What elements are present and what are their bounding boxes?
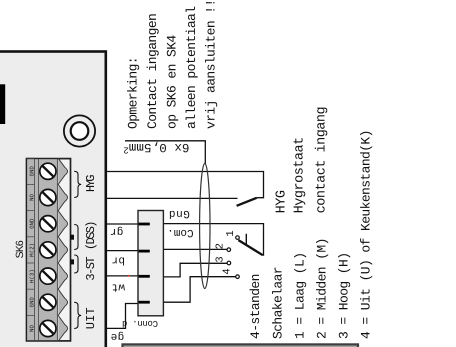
svg-text:GND: GND (29, 297, 36, 308)
svg-text:Hygrostaat: Hygrostaat (293, 137, 308, 213)
svg-text:3: 3 (215, 256, 227, 262)
svg-text:wt: wt (111, 281, 125, 293)
svg-text:GND: GND (29, 218, 36, 229)
svg-text:alleen potentiaal: alleen potentiaal (184, 6, 199, 129)
svg-text:3-ST: 3-ST (84, 257, 98, 281)
svg-text:vrij aansluiten !!: vrij aansluiten !! (204, 0, 219, 129)
svg-text:M(2): M(2) (29, 243, 36, 257)
svg-text:Opmerking:: Opmerking: (126, 57, 141, 129)
svg-text:6x 0,5mm2: 6x 0,5mm2 (123, 140, 189, 155)
svg-text:Schakelaar: Schakelaar (270, 267, 285, 339)
svg-text:HYG: HYG (84, 175, 98, 192)
svg-text:HYG: HYG (275, 190, 290, 213)
svg-text:ge: ge (110, 330, 124, 342)
svg-text:gr: gr (110, 225, 124, 237)
svg-text:2: 2 (215, 243, 227, 249)
svg-text:(DSS): (DSS) (84, 222, 98, 250)
svg-text:SK6: SK6 (14, 240, 26, 258)
svg-text:Gnd: Gnd (168, 207, 190, 219)
svg-text:op SK6 en SK4: op SK6 en SK4 (165, 35, 180, 129)
svg-text:4 = Uit (U) of Keukenstand(K): 4 = Uit (U) of Keukenstand(K) (359, 130, 374, 339)
svg-text:1: 1 (225, 230, 237, 236)
svg-text:contact ingang: contact ingang (314, 107, 329, 213)
svg-text:Com.: Com. (167, 226, 193, 238)
svg-text:GND: GND (29, 166, 36, 177)
svg-text:H(3): H(3) (29, 269, 36, 283)
svg-text:UIT: UIT (84, 307, 98, 329)
svg-text:1 = Laag (L): 1 = Laag (L) (292, 253, 307, 339)
svg-text:Conn. d: Conn. d (122, 318, 158, 328)
svg-text:4-standen: 4-standen (248, 274, 263, 339)
svg-text:3 = Hoog (H): 3 = Hoog (H) (337, 253, 352, 339)
svg-text:4: 4 (222, 268, 234, 274)
svg-text:2 = Midden (M): 2 = Midden (M) (315, 238, 330, 339)
svg-text:NO: NO (29, 194, 36, 201)
svg-text:NO: NO (29, 325, 36, 332)
svg-text:Contact ingangen: Contact ingangen (145, 14, 160, 129)
svg-text:br: br (111, 254, 125, 266)
